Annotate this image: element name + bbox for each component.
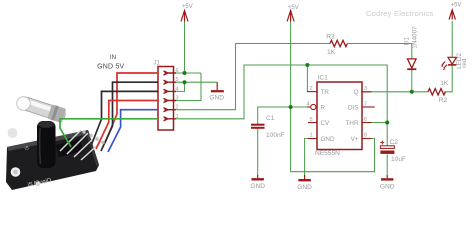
svg-text:10uF: 10uF [391, 156, 406, 163]
wire J1 pin5 to GND [176, 81, 217, 83]
junction node THR rail [385, 121, 389, 125]
svg-text:red: red [461, 58, 468, 68]
svg-text:6: 6 [364, 117, 367, 123]
+5V symbol 2 [287, 11, 294, 22]
svg-text:+5V: +5V [182, 4, 193, 10]
wire blue module signal to J1 pin2 [108, 110, 158, 152]
svg-text:THR: THR [346, 120, 359, 127]
svg-text:1: 1 [176, 114, 179, 120]
wire J1 pin2 to R3 rail [176, 44, 330, 110]
svg-text:4: 4 [306, 101, 309, 107]
svg-text:C2: C2 [390, 139, 399, 146]
wire J1 pin1 to TR/THR rail [176, 65, 387, 146]
photo: header base block [56, 139, 83, 157]
IC1 pin names [321, 89, 359, 143]
junction node Q/D1/R2 [410, 90, 414, 94]
junction node pin5/GND [183, 80, 187, 84]
ground symbol under C1 [257, 175, 259, 178]
+5V symbol 3 [449, 10, 455, 20]
svg-text:DIS: DIS [348, 105, 359, 112]
svg-text:3: 3 [176, 96, 179, 102]
svg-text:Codrey Electronics: Codrey Electronics [366, 9, 433, 18]
svg-text:R: R [321, 105, 326, 112]
svg-text:8: 8 [364, 132, 367, 138]
svg-text:GND: GND [250, 183, 265, 190]
svg-text:1K: 1K [440, 80, 449, 87]
svg-text:2: 2 [309, 86, 312, 92]
svg-text:4: 4 [176, 86, 179, 92]
wire C1 to reset pin [258, 107, 310, 124]
wire D1 to Q node [411, 70, 413, 92]
wire THR to rail [362, 122, 387, 124]
svg-text:1: 1 [309, 132, 312, 138]
svg-text:CV: CV [321, 120, 331, 127]
+5V symbol 1 [181, 11, 188, 22]
svg-text:2: 2 [176, 105, 179, 111]
svg-text:6: 6 [176, 68, 179, 74]
photo: PCB mounting hole [11, 167, 21, 177]
photo: black cylinder housing [37, 121, 56, 168]
svg-text:GND: GND [297, 184, 312, 191]
LED LED2 [442, 57, 456, 68]
svg-text:5: 5 [176, 77, 179, 83]
J1 pin numbers [176, 68, 179, 120]
svg-text:GND: GND [380, 183, 395, 190]
resistor R2 [428, 89, 445, 95]
op-amp/timer IC1 NE555N box [317, 82, 362, 150]
wire R3 to D1 [347, 44, 411, 59]
svg-text:GND 5V: GND 5V [97, 63, 124, 70]
svg-text:R3: R3 [326, 34, 335, 41]
junction node TR rail [305, 63, 309, 67]
svg-text:3: 3 [364, 86, 367, 92]
wire +5V drop to LED2 [451, 21, 453, 57]
svg-text:GND: GND [321, 136, 335, 143]
wire red 5V input to J1 pin6 [105, 73, 158, 143]
IC1 pin stubs [307, 92, 375, 139]
ground symbol under C2 [386, 175, 388, 178]
svg-text:7: 7 [364, 101, 367, 107]
wire black module GND to J1 pin4 [91, 91, 158, 146]
svg-text:IN: IN [110, 54, 116, 61]
junction node reset/+5V rail [289, 105, 293, 109]
svg-text:100nF: 100nF [266, 132, 285, 139]
wire red module VCC to J1 pin3 [96, 101, 158, 150]
IC1 reset pin inversion circle [311, 104, 316, 109]
connector J1 [158, 67, 174, 131]
svg-text:NE555N: NE555N [315, 150, 340, 157]
wire R2 to LED2 [444, 65, 452, 92]
svg-text:IC1: IC1 [318, 75, 329, 82]
svg-text:D1: D1 [404, 36, 411, 45]
wire C1 to GND [257, 129, 259, 176]
svg-text:J1: J1 [154, 61, 161, 67]
IC1 pin numbers [306, 86, 367, 139]
photo: header pins [60, 130, 102, 160]
ground symbol under IC1 [304, 175, 306, 179]
svg-text:1N4007: 1N4007 [412, 26, 419, 49]
photo: sensor module PCB [6, 130, 99, 190]
photo: glass tilt switch tube [18, 95, 67, 124]
resistor R3 [330, 40, 347, 46]
svg-text:GND: GND [209, 95, 224, 102]
wire TR drop [306, 65, 308, 92]
svg-text:Q: Q [354, 89, 359, 96]
wire C2 to GND [386, 154, 388, 175]
wire riser to J1 pin3 (+5V net) [176, 73, 201, 101]
capacitor C2 (polarized) [380, 146, 394, 149]
wire Q output to R2 [362, 91, 428, 93]
wire +5V drop to J1 pin 6 [184, 21, 186, 73]
wire green module signal to J1 pin1 [60, 119, 158, 147]
svg-text:TR: TR [321, 89, 330, 96]
svg-text:+5V: +5V [451, 3, 462, 9]
svg-text:+5V: +5V [288, 5, 299, 11]
wire J1 pin6 to riser [176, 72, 201, 74]
capacitor C1 [251, 124, 265, 126]
wire J1 pin4 to pin5 (GND net) [176, 82, 185, 91]
junction node pin6/+5V [183, 71, 187, 75]
svg-text:5: 5 [309, 117, 312, 123]
wire IC GND pin to GND [305, 139, 308, 176]
ground symbol near J1 [216, 82, 218, 90]
photo: solder joints [82, 130, 85, 133]
svg-text:V+: V+ [351, 136, 359, 143]
wire black GND input to J1 pin5 [101, 82, 158, 151]
photo: PCB corner pad [8, 128, 18, 138]
wire +5V rail to V+ [291, 21, 375, 172]
svg-text:R2: R2 [439, 97, 448, 104]
svg-text:C1: C1 [266, 115, 275, 122]
svg-text:1K: 1K [327, 49, 336, 56]
diode D1 [407, 59, 416, 69]
